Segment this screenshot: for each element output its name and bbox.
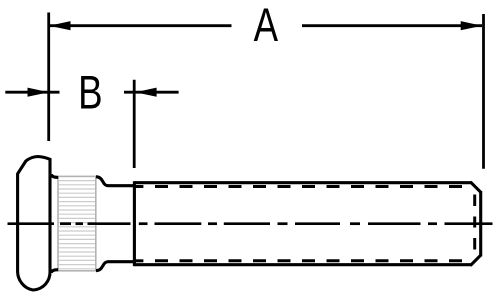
tip chamfer bottom: [470, 255, 480, 265]
thread minor diameter (dashed, top): [135, 185, 143, 188]
tip end face: [479, 191, 482, 256]
dimension B: right arrowhead (points left): [135, 88, 156, 97]
head-to-knurl fillet (top): [51, 174, 58, 177]
head-to-knurl fillet (bottom): [51, 270, 58, 273]
thread minor diameter (dashed, bottom): [135, 259, 143, 262]
dimension A: dimension line left segment: [50, 24, 232, 27]
svg-text:A: A: [254, 0, 279, 51]
shank outline (major diameter) top: [134, 181, 471, 184]
dimension A: right arrowhead: [461, 21, 482, 30]
dimension B: right extension line: [133, 80, 136, 168]
centerline (dash-dot): [8, 222, 493, 225]
neck S-curve (top): [96, 177, 136, 186]
dimension A: left arrowhead: [49, 21, 70, 30]
thread runout (vertical dashed at tip): [473, 195, 476, 250]
stud head: [18, 157, 50, 291]
dimension A: dimension line right segment: [302, 24, 482, 27]
dimension B: right arrow line: [124, 91, 179, 94]
dimension B: left arrowhead (points right): [28, 88, 49, 97]
shank outline bottom: [134, 263, 471, 266]
svg-text:B: B: [78, 66, 102, 118]
tip chamfer top: [470, 182, 480, 192]
neck S-curve (bottom): [96, 262, 136, 271]
dimension A: left extension line: [47, 13, 50, 142]
thread start line: [133, 181, 136, 266]
dimension B: left arrow line: [5, 91, 59, 94]
dimension A: right extension line: [482, 14, 485, 169]
knurl serrated section (gray): [58, 176, 96, 270]
